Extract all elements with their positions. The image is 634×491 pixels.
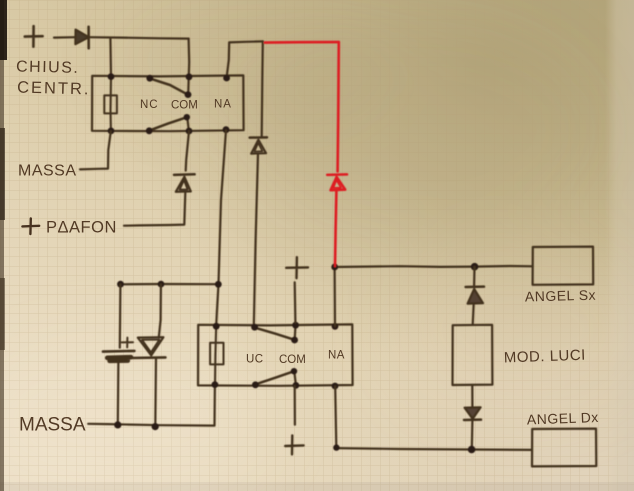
junction K1 NC bottom (146, 127, 153, 134)
junction K1 COM pivot (185, 91, 192, 98)
diode D7 (465, 407, 481, 419)
battery B1 negative lead (117, 359, 120, 424)
wire K2 NA bottom riser to node B (335, 386, 338, 448)
wire K1 NA jumper up and over (227, 41, 263, 77)
junction K2 COM pivot bottom (291, 368, 297, 374)
wire K2 COM bottom stub (294, 371, 296, 385)
junction K1 NC top (146, 75, 153, 82)
diode D1 (75, 30, 88, 45)
wire D4 anode lead (159, 284, 161, 337)
wire MASSA 2 (88, 385, 215, 426)
left photo edge shadow (0, 0, 4, 491)
battery B1 long plate (103, 350, 134, 353)
junction MASSA battery (114, 421, 121, 428)
wire D2 to K2 NC top (254, 154, 258, 327)
junction battery rail left (117, 281, 124, 288)
junction MASSA D4 (152, 423, 159, 430)
wire supply to D1 (54, 36, 75, 39)
svg-text:NC: NC (140, 99, 159, 111)
wire D4 cathode lead (154, 359, 157, 427)
wire plus top of K2 (294, 282, 297, 322)
junction node B D7 tap (468, 446, 476, 454)
contact arm K2 top (255, 328, 293, 340)
junction node A D6 tap (471, 263, 479, 271)
junction K1 bottom pivot (184, 114, 190, 120)
junction K1 NA bottom (223, 126, 230, 133)
wire K1 COM to D3 (186, 131, 189, 171)
junction K2 NC top (251, 324, 258, 331)
module box MOD. LUCI (453, 325, 493, 385)
svg-text:PΔAFON: PΔAFON (46, 219, 117, 237)
svg-text:COM: COM (171, 100, 198, 112)
wire red vertical upper (338, 42, 339, 171)
wire red vertical lower (335, 191, 336, 266)
node plus sign below K2 (285, 435, 303, 454)
wire K2 NA top riser to node A (334, 267, 337, 326)
junction K1 NA top (223, 75, 230, 82)
diode D5 red (327, 173, 347, 176)
label + PLAFON plus (22, 218, 39, 234)
wire D6 anode to MOD LUCI (473, 304, 474, 325)
wire supply top rail (89, 37, 188, 38)
svg-text:MOD. LUCI: MOD. LUCI (504, 347, 587, 367)
junction K2 NC bottom (252, 381, 259, 388)
wire K2 COM top stub (294, 325, 297, 340)
contact arm K1 bottom (150, 117, 187, 130)
battery B1 plus sign (122, 338, 133, 348)
svg-text:CENTR.: CENTR. (17, 79, 91, 99)
load box ANGEL SX (533, 247, 594, 285)
svg-text:UC: UC (246, 354, 264, 366)
node plus sign above K2 (286, 257, 308, 278)
svg-text:MASSA: MASSA (18, 163, 77, 180)
relay K1 box (92, 75, 244, 131)
diode D3 (174, 173, 195, 176)
wire K1 NA bottom down to battery rail (219, 130, 227, 284)
svg-text:ANGEL Sx: ANGEL Sx (525, 287, 597, 305)
wire branch to K1 coil top (109, 38, 112, 76)
junction node A corner (331, 264, 338, 271)
relay K2 box (198, 324, 353, 385)
junction node B corner (333, 444, 339, 450)
wire K2 coil through lead (215, 326, 216, 384)
junction battery rail D4 (158, 281, 165, 288)
coil K2 (210, 343, 223, 365)
wire node A rail (335, 266, 533, 267)
wire K1 coil through lead (109, 77, 112, 131)
wire K1 NA branch down to D2 (262, 41, 263, 136)
coil K1 (104, 95, 117, 113)
junction K1 coil top (108, 73, 115, 80)
svg-text:NA: NA (214, 99, 232, 111)
contact arm K2 bottom (256, 371, 293, 384)
wire D3 to PLAFON (124, 193, 185, 226)
wire MASSA 1 (80, 131, 111, 169)
junction K2 COM pivot top (291, 337, 298, 344)
junction K2 COM bottom (293, 382, 300, 389)
svg-text:CHIUS.: CHIUS. (16, 59, 80, 77)
battery B1 short plate (107, 357, 131, 361)
wire red top horizontal (265, 41, 339, 44)
svg-text:COM: COM (279, 354, 306, 366)
wire D7 cathode lead (471, 420, 474, 449)
wire battery top rail (120, 283, 219, 285)
wire D6 cathode lead (473, 267, 476, 286)
wire battery rail to K2 coil top (216, 284, 218, 326)
junction K2 NA bottom (332, 383, 339, 390)
junction K1 COM bottom (186, 128, 193, 135)
junction K2 NA top (332, 323, 339, 330)
diode D2 (250, 136, 267, 139)
node +12V supply plus sign (25, 26, 43, 46)
wire plus bottom of K2 (294, 386, 296, 425)
wire K1 COM lead (188, 39, 189, 95)
diode D4 (138, 337, 164, 355)
junction K2 COM top (292, 322, 299, 329)
battery B1 positive lead (119, 284, 122, 347)
wire K1 COM bottom stub (187, 117, 189, 130)
junction K1 coil bottom (108, 127, 115, 134)
junction K1 COM top (186, 73, 193, 80)
load box ANGEL DX (532, 429, 596, 467)
junction K2 coil bottom (212, 381, 219, 388)
wire MOD LUCI to D7 (471, 385, 473, 407)
svg-text:MASSA: MASSA (19, 415, 86, 436)
svg-text:ANGEL Dx: ANGEL Dx (527, 409, 599, 428)
junction K2 coil top (213, 323, 220, 330)
junction battery rail right (215, 281, 222, 288)
svg-text:NA: NA (328, 350, 345, 362)
wire node B rail (336, 448, 532, 450)
diode D6 (466, 285, 484, 288)
contact arm K1 top (150, 79, 187, 95)
